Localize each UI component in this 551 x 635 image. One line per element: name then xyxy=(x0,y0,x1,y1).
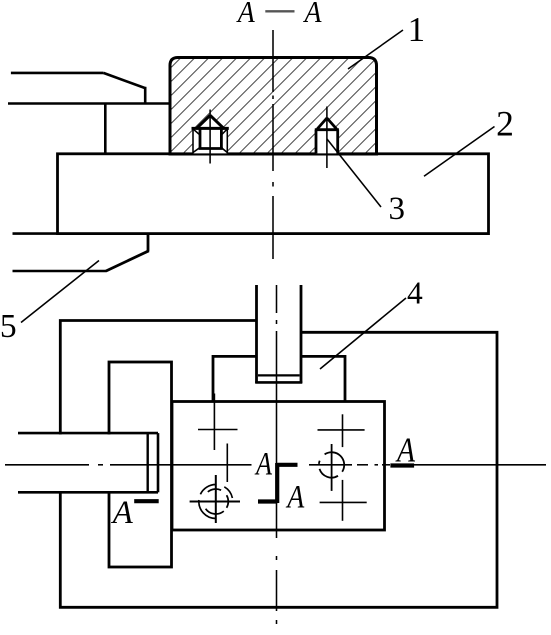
leader line for label 4 xyxy=(320,298,406,369)
vertical rod from above (plan) xyxy=(255,285,302,383)
screw position cross right-top xyxy=(318,414,365,447)
screw position cross right-bottom xyxy=(320,480,367,521)
svg-text:A: A xyxy=(303,0,323,29)
svg-text:A: A xyxy=(254,446,272,482)
section header A-A xyxy=(236,0,322,29)
leader line for label 1 xyxy=(348,30,403,69)
lower-left lever arm (part 5) xyxy=(13,234,149,271)
drilled hole circle on centerline xyxy=(319,444,344,491)
plan view: fixture body outline xyxy=(60,321,497,608)
svg-text:A: A xyxy=(236,0,256,29)
part 1 clamp block (hatched) xyxy=(170,58,377,155)
leader line for label 2 xyxy=(424,127,495,177)
leader line for label 5 xyxy=(21,261,99,323)
svg-text:A: A xyxy=(286,479,305,515)
section cut jog marks (thick) xyxy=(258,463,298,503)
section end mark left xyxy=(134,499,159,503)
leader line for label 3 xyxy=(327,139,381,207)
svg-text:1: 1 xyxy=(408,10,426,49)
svg-text:5: 5 xyxy=(0,308,17,345)
part 2 base plate xyxy=(58,154,489,234)
bolt right (item 3 pointer target) xyxy=(315,107,339,169)
vertical centerline (plan) xyxy=(276,285,278,624)
part 4 step block xyxy=(213,355,345,402)
tall support rectangle xyxy=(109,362,172,567)
svg-text:A: A xyxy=(395,431,415,470)
bolt 3 left (hex screw in section) xyxy=(192,110,229,164)
upper-left lever arm xyxy=(8,73,170,154)
svg-text:3: 3 xyxy=(388,191,405,227)
swing washer symbol (dashed circles with cross) xyxy=(190,475,240,523)
screw position cross left xyxy=(198,394,238,451)
svg-text:A: A xyxy=(111,495,134,531)
svg-text:2: 2 xyxy=(496,104,514,144)
horizontal centerline (plan) xyxy=(5,464,546,466)
central block xyxy=(172,402,385,531)
vertical centerline of section view xyxy=(272,30,274,259)
section end mark right xyxy=(390,463,414,467)
horizontal clamp rod (left, plan) xyxy=(18,433,158,492)
svg-text:4: 4 xyxy=(407,275,423,310)
small cross on centerline xyxy=(226,444,228,483)
